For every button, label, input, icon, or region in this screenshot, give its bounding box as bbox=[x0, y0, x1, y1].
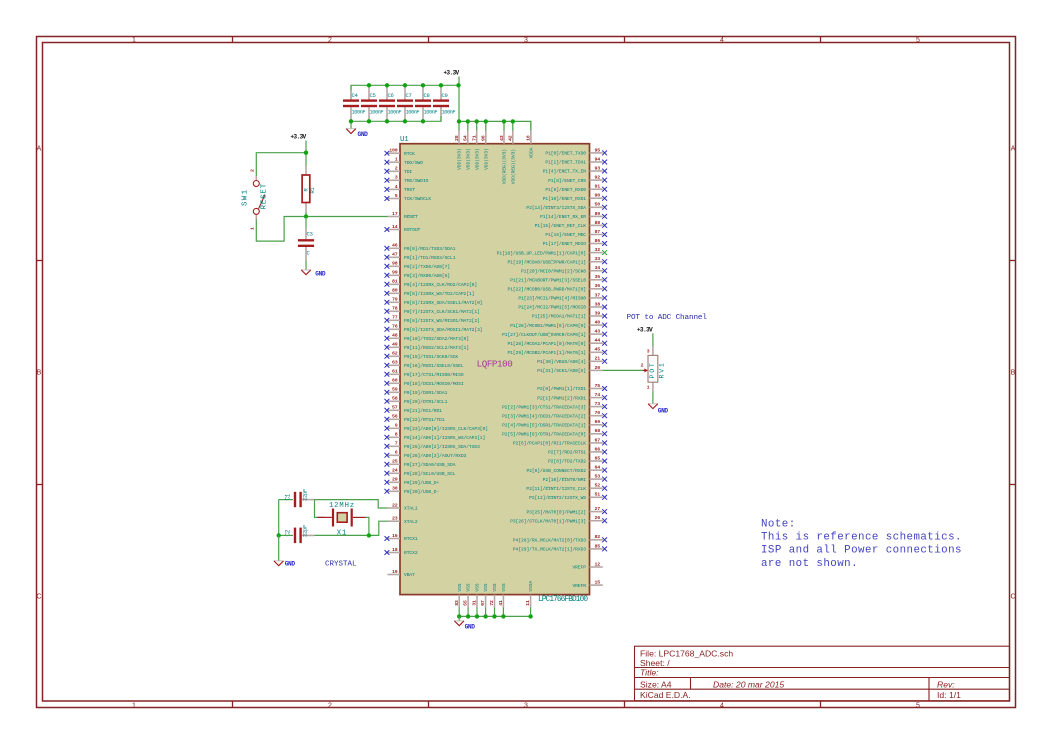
svg-text:VSS: VSS bbox=[466, 583, 472, 591]
svg-text:88: 88 bbox=[595, 220, 601, 226]
svg-text:80: 80 bbox=[392, 288, 398, 294]
wire node to SW1 pin 2 bbox=[256, 153, 306, 176]
capacitor C9 100nF bbox=[433, 85, 455, 121]
svg-text:34: 34 bbox=[595, 265, 601, 271]
svg-text:92: 92 bbox=[595, 175, 601, 181]
svg-text:85: 85 bbox=[595, 543, 601, 549]
svg-text:C5: C5 bbox=[370, 92, 376, 99]
svg-text:38: 38 bbox=[595, 301, 601, 307]
svg-text:28: 28 bbox=[454, 135, 460, 141]
U1 bottom pin 55 VSS bbox=[463, 583, 472, 607]
svg-text:P1[18]/USB_UP_LED/PWM1[1]/CAP1: P1[18]/USB_UP_LED/PWM1[1]/CAP1[0] bbox=[497, 250, 586, 256]
wire VSS stub bbox=[502, 608, 504, 617]
junction bbox=[367, 119, 371, 123]
svg-text:96: 96 bbox=[481, 135, 487, 141]
svg-text:86: 86 bbox=[595, 238, 601, 244]
ground (reset) bbox=[301, 270, 326, 277]
svg-text:RTCX2: RTCX2 bbox=[404, 550, 418, 556]
svg-text:30: 30 bbox=[392, 486, 398, 492]
svg-text:56: 56 bbox=[392, 414, 398, 420]
U1 pin 53 P2[10]/EINT0/NMI bbox=[543, 474, 607, 483]
U1 pin 65 P2[8]/TD2/TXD2 bbox=[548, 455, 607, 464]
svg-text:94: 94 bbox=[595, 156, 601, 162]
note text bbox=[761, 519, 962, 570]
svg-text:72: 72 bbox=[489, 600, 495, 606]
wire bottom rail to XTAL2 pin23 bbox=[315, 521, 388, 535]
svg-text:P0[24]/AD0[1]/I2SRX_WS/CAP3[1]: P0[24]/AD0[1]/I2SRX_WS/CAP3[1] bbox=[404, 435, 485, 441]
U1 pin 78 P0[7]/I2STX_CLK/SCK1/MAT2[1] bbox=[385, 306, 480, 315]
U1 pin 34 P1[20]/MCI0/PWM1[2]/SCK0 bbox=[521, 265, 607, 274]
svg-text:P1[8]/ENET_CRS: P1[8]/ENET_CRS bbox=[548, 178, 586, 184]
U1 bottom pin 97 VSS bbox=[480, 583, 489, 607]
junction bbox=[403, 83, 407, 87]
svg-text:70: 70 bbox=[595, 410, 601, 416]
svg-text:P1[27]/CLKOUT/USB_OVRCR/CAP0[1: P1[27]/CLKOUT/USB_OVRCR/CAP0[1] bbox=[502, 332, 586, 338]
U1 pin 30 P0[30]/USB_D- bbox=[385, 486, 440, 495]
U1 pin 61 P0[17]/CTS1/MISO0/MISO bbox=[385, 369, 464, 378]
U1 pin 1 TDO/SWO bbox=[385, 157, 424, 166]
svg-text:C8: C8 bbox=[424, 92, 430, 99]
junction bbox=[367, 533, 371, 537]
svg-text:22pF: 22pF bbox=[302, 525, 309, 537]
svg-text:8: 8 bbox=[395, 432, 398, 438]
svg-text:VSS: VSS bbox=[457, 583, 463, 591]
svg-text:P1[16]/ENET_MDC: P1[16]/ENET_MDC bbox=[545, 232, 586, 238]
svg-text:P1[26]/MCOB1/PWM1[6]/CAP0[0]: P1[26]/MCOB1/PWM1[6]/CAP0[0] bbox=[510, 323, 586, 329]
svg-text:RESET: RESET bbox=[404, 214, 418, 220]
svg-text:+3.3V: +3.3V bbox=[637, 326, 653, 333]
svg-text:33: 33 bbox=[595, 256, 601, 262]
U1 pin 87 P1[16]/ENET_MDC bbox=[545, 229, 607, 238]
U1 pin 89 P1[14]/ENET_RX_ER bbox=[540, 211, 607, 220]
U1 pin 50 P2[13]/EINT3/I2STX_SDA bbox=[526, 202, 607, 211]
svg-text:P0[11]/RXD2/SCL2/MAT3[1]: P0[11]/RXD2/SCL2/MAT3[1] bbox=[404, 345, 469, 351]
svg-text:P2[4]/PWM1[5]/DSR1/TRACEDATA[1: P2[4]/PWM1[5]/DSR1/TRACEDATA[1] bbox=[502, 423, 586, 429]
U1 pin 12 VREFP bbox=[572, 561, 602, 570]
svg-text:X1: X1 bbox=[337, 530, 347, 538]
wire xtal left vertical bbox=[278, 500, 280, 536]
wire +3.3V to RV1 bbox=[652, 333, 654, 346]
svg-text:54: 54 bbox=[463, 135, 469, 141]
svg-text:are not shown.: are not shown. bbox=[761, 558, 858, 570]
svg-text:19: 19 bbox=[392, 569, 398, 575]
svg-text:46: 46 bbox=[392, 243, 398, 249]
svg-text:45: 45 bbox=[595, 347, 601, 353]
svg-text:GND: GND bbox=[358, 131, 369, 138]
svg-text:87: 87 bbox=[595, 229, 601, 235]
capacitor C1 22pF bbox=[279, 489, 315, 507]
svg-text:C: C bbox=[36, 594, 41, 601]
ground (VSS) bbox=[454, 621, 475, 631]
U1 pin 21 P1[30]/VBUS/AD0[4] bbox=[537, 356, 607, 365]
U1 pin 37 P1[23]/MCI1/PWM1[4]/MISO0 bbox=[518, 292, 607, 301]
U1 pin 88 P1[15]/ENET_REF_CLK bbox=[535, 220, 607, 229]
svg-text:P2[8]/TD2/TXD2: P2[8]/TD2/TXD2 bbox=[548, 459, 586, 465]
U1 pin 39 P1[25]/MCOA1/MAT1[1] bbox=[532, 310, 607, 319]
U1 pin 44 P1[28]/MCOA2/PCAP1[0]/MAT0[0] bbox=[508, 338, 608, 347]
svg-text:P0[28]/SCL0/USB_SCL: P0[28]/SCL0/USB_SCL bbox=[404, 471, 456, 477]
U1 pin 79 P0[6]/I2SRX_SDA/SSEL1/MAT2[0] bbox=[385, 297, 483, 306]
junction bbox=[304, 214, 308, 218]
svg-text:P1[14]/ENET_RX_ER: P1[14]/ENET_RX_ER bbox=[540, 214, 586, 220]
svg-text:+3.3V: +3.3V bbox=[290, 134, 306, 141]
svg-text:P1[23]/MCI1/PWM1[4]/MISO0: P1[23]/MCI1/PWM1[4]/MISO0 bbox=[518, 296, 586, 302]
wire capacitor bottom rail to GND bbox=[351, 107, 441, 129]
junction bbox=[421, 83, 425, 87]
junction bbox=[483, 614, 487, 618]
U1 pin 48 P0[10]/TXD2/SDA2/MAT3[0] bbox=[385, 333, 469, 342]
title block bbox=[635, 646, 1010, 701]
U1 pin 94 P1[1]/ENET_TDX1 bbox=[545, 156, 607, 165]
capacitor C5 100nF bbox=[361, 85, 383, 121]
svg-text:VSS: VSS bbox=[483, 583, 489, 591]
svg-text:18: 18 bbox=[392, 547, 398, 553]
wire reset node to U1 pin17 bbox=[306, 212, 388, 217]
wire crystal left branch bbox=[315, 500, 325, 518]
U1 pin 51 P2[12]/EINT2/I2STX_WS bbox=[529, 492, 607, 501]
svg-text:Note:: Note: bbox=[761, 519, 796, 531]
wire reset node to C3 bbox=[305, 217, 307, 229]
svg-text:P2[1]/PWM1[2]/RXD1: P2[1]/PWM1[2]/RXD1 bbox=[537, 395, 586, 401]
U1 bottom pin 83 VSS bbox=[454, 583, 463, 607]
svg-text:P0[20]/DTR1/SCL1: P0[20]/DTR1/SCL1 bbox=[404, 399, 448, 405]
U1 pin 2 TDI bbox=[385, 166, 413, 175]
svg-text:P0[2]/TXD0/AD0[7]: P0[2]/TXD0/AD0[7] bbox=[404, 264, 450, 270]
svg-text:P1[22]/MCOB0/USB_PWRD/MAT1[0]: P1[22]/MCOB0/USB_PWRD/MAT1[0] bbox=[508, 287, 587, 293]
junction bbox=[385, 83, 389, 87]
svg-text:68: 68 bbox=[595, 428, 601, 434]
svg-text:P1[20]/MCI0/PWM1[2]/SCK0: P1[20]/MCI0/PWM1[2]/SCK0 bbox=[521, 268, 586, 274]
svg-text:P0[1]/TD1/RXD3/SCL1: P0[1]/TD1/RXD3/SCL1 bbox=[404, 255, 456, 261]
U1 top pin 42 VDD(REG)(3V3) bbox=[508, 121, 517, 184]
junction bbox=[475, 614, 479, 618]
U1 pin 38 P1[24]/MCI2/PWM1[5]/MOSI0 bbox=[518, 301, 607, 310]
svg-text:SW1: SW1 bbox=[242, 189, 250, 206]
svg-text:P0[23]/AD0[0]/I2SRX_CLK/CAP3[0: P0[23]/AD0[0]/I2SRX_CLK/CAP3[0] bbox=[404, 426, 488, 432]
U1 pin 43 P1[27]/CLKOUT/USB_OVRCR/CAP0[1] bbox=[502, 329, 607, 338]
svg-text:VREFP: VREFP bbox=[572, 565, 586, 571]
svg-text:B: B bbox=[37, 370, 42, 377]
svg-text:U1: U1 bbox=[400, 136, 409, 144]
wire VSS stub bbox=[467, 608, 469, 617]
svg-text:59: 59 bbox=[392, 387, 398, 393]
svg-text:P0[26]/AD0[3]/AOUT/RXD3: P0[26]/AD0[3]/AOUT/RXD3 bbox=[404, 453, 467, 459]
svg-text:14: 14 bbox=[392, 224, 398, 230]
svg-text:89: 89 bbox=[595, 211, 601, 217]
wire SW1 pin1 to reset node bbox=[256, 217, 306, 242]
svg-text:P1[4]/ENET_TX_EN: P1[4]/ENET_TX_EN bbox=[543, 169, 587, 175]
svg-text:P0[19]/DSR1/SDA1: P0[19]/DSR1/SDA1 bbox=[404, 390, 448, 396]
svg-text:4: 4 bbox=[720, 37, 724, 44]
U1 pin 46 P0[0]/RD1/TXD3/SDA1 bbox=[385, 243, 456, 252]
potentiometer RV1 POT bbox=[641, 347, 666, 392]
U1 pin 68 P2[5]/PWM1[6]/DTR1/TRACEDATA[0] bbox=[502, 428, 607, 437]
capacitor C6 100nF bbox=[379, 85, 401, 121]
svg-text:79: 79 bbox=[392, 297, 398, 303]
svg-text:P1[24]/MCI2/PWM1[5]/MOSI0: P1[24]/MCI2/PWM1[5]/MOSI0 bbox=[518, 305, 586, 311]
svg-text:P0[25]/AD0[2]/I2SRX_SDA/TXD3: P0[25]/AD0[2]/I2SRX_SDA/TXD3 bbox=[404, 444, 480, 450]
U1 pin 52 P2[11]/EINT1/I2STX_CLK bbox=[526, 483, 607, 492]
svg-text:12: 12 bbox=[595, 561, 601, 567]
U1 pin 93 P1[4]/ENET_TX_EN bbox=[543, 165, 607, 174]
svg-text:P2[11]/EINT1/I2STX_CLK: P2[11]/EINT1/I2STX_CLK bbox=[526, 486, 586, 492]
svg-text:RESET: RESET bbox=[261, 183, 269, 210]
junction bbox=[492, 614, 496, 618]
svg-text:23: 23 bbox=[392, 516, 398, 522]
U1 pin 91 P1[9]/ENET_RXD0 bbox=[545, 184, 607, 193]
svg-text:P0[5]/I2SRX_WS/TD2/CAP2[1]: P0[5]/I2SRX_WS/TD2/CAP2[1] bbox=[404, 291, 474, 297]
svg-text:1: 1 bbox=[249, 227, 255, 230]
U1 pin 82 P4[28]/RX_MCLK/MAT2[0]/TXD3 bbox=[513, 534, 607, 543]
junction bbox=[484, 119, 488, 123]
svg-text:RTCX1: RTCX1 bbox=[404, 536, 418, 542]
svg-text:51: 51 bbox=[595, 492, 601, 498]
junction bbox=[277, 533, 281, 537]
svg-text:P0[27]/SDA0/USB_SDA: P0[27]/SDA0/USB_SDA bbox=[404, 462, 456, 468]
svg-text:11: 11 bbox=[525, 600, 531, 606]
wire capacitor top rail bbox=[351, 85, 459, 99]
svg-text:71: 71 bbox=[472, 135, 478, 141]
junction bbox=[457, 614, 461, 618]
svg-text:TCK/SWDCLK: TCK/SWDCLK bbox=[404, 196, 431, 202]
svg-text:P0[10]/TXD2/SDA2/MAT3[0]: P0[10]/TXD2/SDA2/MAT3[0] bbox=[404, 336, 469, 342]
svg-text:36: 36 bbox=[595, 283, 601, 289]
U1 pin 62 P0[15]/TXD1/SCK0/SCK bbox=[385, 351, 459, 360]
svg-text:82: 82 bbox=[595, 534, 601, 540]
svg-text:TDI: TDI bbox=[404, 169, 412, 175]
svg-text:P2[3]/PWM1[4]/DCD1/TRACEDATA[2: P2[3]/PWM1[4]/DCD1/TRACEDATA[2] bbox=[502, 413, 586, 419]
svg-text:POT to ADC Channel: POT to ADC Channel bbox=[627, 314, 708, 322]
svg-text:43: 43 bbox=[499, 135, 505, 141]
capacitor C7 100nF bbox=[397, 85, 419, 121]
svg-text:52: 52 bbox=[595, 483, 601, 489]
svg-text:TMS/SWDIO: TMS/SWDIO bbox=[404, 178, 429, 184]
svg-text:93: 93 bbox=[595, 165, 601, 171]
svg-text:58: 58 bbox=[392, 396, 398, 402]
svg-text:100nF: 100nF bbox=[370, 110, 384, 116]
svg-text:P1[19]/MCOA0/USB_PPWR/CAP1[1]: P1[19]/MCOA0/USB_PPWR/CAP1[1] bbox=[508, 259, 587, 265]
svg-text:P1[31]/SCK1/AD0[5]: P1[31]/SCK1/AD0[5] bbox=[537, 368, 586, 374]
junction bbox=[367, 83, 371, 87]
wire to crystal ground bbox=[278, 535, 280, 561]
svg-text:43: 43 bbox=[595, 329, 601, 335]
svg-text:P2[5]/PWM1[6]/DTR1/TRACEDATA[0: P2[5]/PWM1[6]/DTR1/TRACEDATA[0] bbox=[502, 432, 586, 438]
wire C3 to ground bbox=[305, 261, 307, 270]
svg-text:37: 37 bbox=[595, 292, 601, 298]
U1 pin 77 P0[8]/I2STX_WS/MISO1/MAT2[2] bbox=[385, 315, 480, 324]
U1 pin 86 P1[17]/ENET_MDIO bbox=[543, 238, 607, 247]
svg-text:P1[17]/ENET_MDIO: P1[17]/ENET_MDIO bbox=[543, 241, 587, 247]
svg-text:3: 3 bbox=[395, 175, 398, 181]
U1 pin 70 P2[3]/PWM1[4]/DCD1/TRACEDATA[2] bbox=[502, 410, 607, 419]
U1 pin 100 RTCK bbox=[385, 148, 416, 157]
U1 bottom pin 31 VSS bbox=[472, 583, 481, 607]
svg-text:100: 100 bbox=[389, 148, 397, 154]
U1 pin 27 P3[25]/MAT0[0]/PWM1[2] bbox=[526, 506, 607, 515]
svg-text:GND: GND bbox=[465, 624, 476, 631]
U1 pin 57 P0[21]/RI1/RD1 bbox=[385, 405, 443, 414]
svg-text:P2[6]/PCAP1[0]/RI1/TRACECLK: P2[6]/PCAP1[0]/RI1/TRACECLK bbox=[513, 441, 586, 447]
svg-text:17: 17 bbox=[392, 211, 398, 217]
U1 pin 33 P1[19]/MCOA0/USB_PPWR/CAP1[1] bbox=[508, 256, 608, 265]
svg-text:31: 31 bbox=[472, 600, 478, 606]
svg-text:35: 35 bbox=[595, 274, 601, 280]
U1 pin 4 TRST bbox=[385, 184, 416, 193]
svg-text:P1[25]/MCOA1/MAT1[1]: P1[25]/MCOA1/MAT1[1] bbox=[532, 314, 586, 320]
svg-text:TRST: TRST bbox=[404, 187, 415, 193]
U1 pin 3 TMS/SWDIO bbox=[385, 175, 429, 184]
svg-text:16: 16 bbox=[392, 533, 398, 539]
svg-text:VDD(REG)(3V3): VDD(REG)(3V3) bbox=[510, 149, 516, 184]
svg-text:C6: C6 bbox=[388, 92, 394, 99]
svg-text:CRYSTAL: CRYSTAL bbox=[325, 560, 357, 568]
svg-text:99: 99 bbox=[392, 270, 398, 276]
junction bbox=[439, 83, 443, 87]
U1 pin 66 P2[7]/RD2/RTS1 bbox=[548, 446, 607, 455]
svg-text:P1[15]/ENET_REF_CLK: P1[15]/ENET_REF_CLK bbox=[535, 223, 587, 229]
svg-text:53: 53 bbox=[595, 474, 601, 480]
junction bbox=[403, 119, 407, 123]
svg-text:LPC1766FBD100: LPC1766FBD100 bbox=[538, 596, 588, 604]
svg-text:3: 3 bbox=[524, 703, 528, 710]
svg-text:Id: 1/1: Id: 1/1 bbox=[937, 690, 961, 700]
U1 pin 58 P0[20]/DTR1/SCL1 bbox=[385, 396, 448, 405]
svg-text:C7: C7 bbox=[406, 92, 412, 99]
wire RV1 to ground bbox=[652, 392, 654, 404]
junction bbox=[466, 614, 470, 618]
crystal X1 12MHz bbox=[318, 502, 366, 538]
ground (POT) bbox=[648, 404, 668, 415]
U1 pin 59 P0[19]/DSR1/SDA1 bbox=[385, 387, 448, 396]
svg-text:2: 2 bbox=[328, 37, 332, 44]
wire +3.3V vertical to rails bbox=[458, 77, 460, 122]
svg-text:1: 1 bbox=[647, 385, 650, 391]
svg-text:2: 2 bbox=[328, 703, 332, 710]
junction bbox=[502, 119, 506, 123]
svg-text:XTAL2: XTAL2 bbox=[404, 519, 418, 525]
wire bottom rail to C2 bbox=[279, 534, 293, 536]
svg-text:VSS: VSS bbox=[492, 583, 498, 591]
svg-text:1: 1 bbox=[395, 157, 398, 163]
svg-text:22pF: 22pF bbox=[302, 489, 309, 501]
svg-text:47: 47 bbox=[392, 252, 398, 258]
svg-text:GND: GND bbox=[658, 408, 669, 415]
power +3.3V (decoupling rail) bbox=[443, 70, 459, 77]
U1 pin 25 P0[27]/SDA0/USB_SDA bbox=[385, 459, 456, 468]
U1 bottom pin 11 VSSA bbox=[525, 580, 534, 607]
svg-text:Size: A4: Size: A4 bbox=[640, 679, 672, 689]
svg-text:P0[0]/RD1/TXD3/SDA1: P0[0]/RD1/TXD3/SDA1 bbox=[404, 246, 456, 252]
svg-text:P4[28]/RX_MCLK/MAT2[0]/TXD3: P4[28]/RX_MCLK/MAT2[0]/TXD3 bbox=[513, 538, 586, 544]
svg-text:44: 44 bbox=[595, 338, 601, 344]
U1 pin 60 P0[18]/DCD1/MOSI0/MOSI bbox=[385, 378, 464, 387]
U1 pin 56 P0[22]/RTS1/TD1 bbox=[385, 414, 445, 423]
svg-text:25: 25 bbox=[392, 459, 398, 465]
svg-text:78: 78 bbox=[392, 306, 398, 312]
U1 pin 69 P2[4]/PWM1[5]/DSR1/TRACEDATA[1] bbox=[502, 419, 607, 428]
power +3.3V (POT) bbox=[637, 326, 653, 333]
svg-text:6: 6 bbox=[395, 450, 398, 456]
svg-text:61: 61 bbox=[392, 369, 398, 375]
svg-text:100nF: 100nF bbox=[424, 110, 438, 116]
svg-text:95: 95 bbox=[595, 147, 601, 153]
svg-text:98: 98 bbox=[392, 261, 398, 267]
svg-text:P1[21]/MCABORT/PWM1[3]/SSEL0: P1[21]/MCABORT/PWM1[3]/SSEL0 bbox=[510, 278, 586, 284]
svg-text:LQFP100: LQFP100 bbox=[477, 358, 513, 369]
svg-text:TDO/SWO: TDO/SWO bbox=[404, 160, 423, 166]
svg-text:P0[15]/TXD1/SCK0/SCK: P0[15]/TXD1/SCK0/SCK bbox=[404, 354, 458, 360]
junction bbox=[304, 151, 308, 155]
wire to ground bbox=[458, 616, 460, 621]
svg-text:P1[29]/MCOB2/PCAP1[1]/MAT0[1]: P1[29]/MCOB2/PCAP1[1]/MAT0[1] bbox=[508, 350, 587, 356]
svg-text:C9: C9 bbox=[442, 92, 448, 99]
svg-text:P0[17]/CTS1/MISO0/MISO: P0[17]/CTS1/MISO0/MISO bbox=[404, 372, 464, 378]
svg-text:RTCK: RTCK bbox=[404, 151, 415, 157]
U1 top pin 43 VDD(REG)(3V3) bbox=[499, 121, 508, 184]
svg-text:P0[8]/I2STX_WS/MISO1/MAT2[2]: P0[8]/I2STX_WS/MISO1/MAT2[2] bbox=[404, 318, 480, 324]
svg-text:P1[1]/ENET_TDX1: P1[1]/ENET_TDX1 bbox=[545, 160, 586, 166]
svg-text:2: 2 bbox=[641, 362, 644, 368]
svg-text:42: 42 bbox=[508, 135, 514, 141]
U1 pin 47 P0[1]/TD1/RXD3/SCL1 bbox=[385, 252, 456, 261]
svg-text:P1[28]/MCOA2/PCAP1[0]/MAT0[0]: P1[28]/MCOA2/PCAP1[0]/MAT0[0] bbox=[508, 341, 587, 347]
U1 pin 92 P1[8]/ENET_CRS bbox=[548, 175, 607, 184]
U1 pin 76 P0[9]/I2STX_SDA/MOSI1/MAT2[3] bbox=[385, 324, 483, 333]
wire R1 top bbox=[305, 153, 307, 166]
svg-text:100nF: 100nF bbox=[352, 110, 366, 116]
U1 pin 85 P4[29]/TX_MCLK/MAT2[1]/RXD3 bbox=[513, 543, 607, 552]
svg-text:ISP and all Power connections: ISP and all Power connections bbox=[761, 545, 962, 557]
svg-text:81: 81 bbox=[392, 279, 398, 285]
svg-text:VDD(3V3): VDD(3V3) bbox=[483, 148, 489, 170]
U1 pin 7 P0[25]/AD0[2]/I2SRX_SDA/TXD3 bbox=[385, 441, 481, 450]
svg-text:P0[6]/I2SRX_SDA/SSEL1/MAT2[0]: P0[6]/I2SRX_SDA/SSEL1/MAT2[0] bbox=[404, 300, 483, 306]
svg-text:75: 75 bbox=[595, 383, 601, 389]
svg-text:10: 10 bbox=[526, 135, 532, 141]
U1 top pin 28 VDD(3V3) bbox=[454, 121, 463, 169]
svg-text:65: 65 bbox=[595, 455, 601, 461]
svg-text:A: A bbox=[37, 146, 42, 153]
U1 pin 23 XTAL2 bbox=[388, 516, 418, 525]
U1 pin 26 P3[26]/STCLK/MAT0[1]/PWM1[3] bbox=[510, 515, 607, 524]
svg-text:77: 77 bbox=[392, 315, 398, 321]
svg-text:R1: R1 bbox=[310, 188, 316, 194]
U1 pin 40 P1[26]/MCOB1/PWM1[6]/CAP0[0] bbox=[510, 320, 607, 329]
svg-text:100nF: 100nF bbox=[388, 110, 402, 116]
svg-text:66: 66 bbox=[595, 446, 601, 452]
svg-text:VDD(3V3): VDD(3V3) bbox=[457, 148, 463, 170]
svg-text:1: 1 bbox=[132, 37, 136, 44]
svg-text:32: 32 bbox=[595, 247, 601, 253]
svg-text:1: 1 bbox=[132, 703, 136, 710]
svg-text:P2[7]/RD2/RTS1: P2[7]/RD2/RTS1 bbox=[548, 450, 586, 456]
svg-text:50: 50 bbox=[595, 202, 601, 208]
U1 pin 67 P2[6]/PCAP1[0]/RI1/TRACECLK bbox=[513, 437, 607, 446]
svg-text:76: 76 bbox=[392, 324, 398, 330]
U1 pin 16 RTCX1 bbox=[385, 533, 418, 542]
svg-text:P0[30]/USB_D-: P0[30]/USB_D- bbox=[404, 489, 439, 495]
svg-text:P1[30]/VBUS/AD0[4]: P1[30]/VBUS/AD0[4] bbox=[537, 359, 586, 365]
svg-text:74: 74 bbox=[595, 392, 601, 398]
U1 pin 63 P0[16]/RXD1/SSEL0/SSEL bbox=[385, 360, 464, 369]
svg-text:62: 62 bbox=[392, 351, 398, 357]
U1 pin 22 XTAL1 bbox=[388, 502, 418, 511]
svg-text:XTAL1: XTAL1 bbox=[404, 506, 418, 512]
svg-text:Title:: Title: bbox=[640, 668, 659, 678]
capacitor C4 100nF bbox=[343, 85, 365, 121]
svg-text:2: 2 bbox=[249, 169, 255, 172]
U1 pin 9 P0[23]/AD0[0]/I2SRX_CLK/CAP3[0] bbox=[385, 423, 488, 432]
